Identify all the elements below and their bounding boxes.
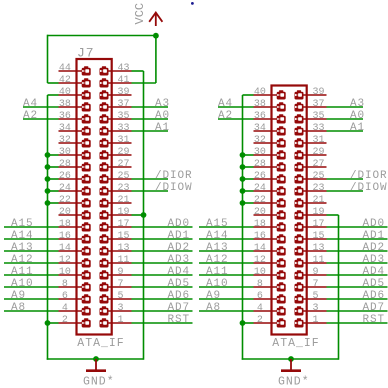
junction pin 19 node	[141, 212, 147, 218]
svg-text:5: 5	[118, 291, 124, 302]
wire net AD3 from right pin 11	[327, 262, 388, 264]
J7 pin 11 (right) stub, pad and number	[100, 255, 132, 268]
J7 pin 35 (right) stub, pad and number	[100, 111, 132, 124]
wire net A2 to right pin 36	[218, 118, 254, 120]
svg-text:3: 3	[313, 303, 319, 314]
J7 pin 16 (left) stub, pad and number	[59, 231, 91, 244]
J7 pin 40 (left) stub, pad and number	[59, 87, 91, 100]
ground symbol GND* (right)	[278, 359, 310, 388]
svg-text:A2: A2	[218, 110, 233, 122]
svg-text:A15: A15	[11, 218, 34, 230]
svg-text:A1: A1	[155, 122, 170, 134]
J8 pin 3 (right) stub, pad and number	[295, 303, 327, 316]
wire net A0 from right connector	[327, 118, 364, 120]
J8 pin 23 (right) stub, pad and number	[295, 183, 327, 196]
wire net AD7 from right pin 3	[327, 310, 388, 312]
ground symbol GND* (left)	[83, 359, 115, 388]
svg-text:/DIOW: /DIOW	[350, 182, 388, 194]
svg-text:43: 43	[118, 63, 130, 74]
J7 pin 8 (left) stub, pad and number	[59, 279, 91, 292]
svg-text:32: 32	[254, 135, 266, 146]
svg-text:38: 38	[59, 99, 71, 110]
svg-text:27: 27	[313, 159, 325, 170]
J7 pin 17 (right) stub, pad and number	[100, 219, 132, 232]
svg-text:29: 29	[118, 147, 130, 158]
J7 pin 32 (left) stub, pad and number	[59, 135, 91, 148]
J8 pin 17 (right) stub, pad and number	[295, 219, 327, 232]
J7 pin 5 (right) stub, pad and number	[100, 291, 132, 304]
junction J7 GND bus at pin 22	[45, 200, 51, 206]
junction J7 GND tap	[93, 356, 99, 362]
svg-text:10: 10	[254, 267, 266, 278]
junction J7 GND bus at pin 26	[45, 176, 51, 182]
svg-text:A9: A9	[11, 290, 26, 302]
svg-text:8: 8	[62, 279, 68, 290]
wire net AD6 from J7 pin 5	[132, 298, 193, 300]
wire net A2 to pin 36	[23, 118, 59, 120]
svg-text:AD6: AD6	[363, 290, 386, 302]
svg-text:5: 5	[313, 291, 319, 302]
J8 pin 8 (left) stub, pad and number	[254, 279, 286, 292]
svg-text:20: 20	[254, 207, 266, 218]
junction VCC node	[153, 33, 159, 39]
svg-text:A8: A8	[206, 302, 221, 314]
J7 pin 43 (right) stub, pad and number	[100, 63, 132, 76]
J7 pin 12 (left) stub, pad and number	[59, 255, 91, 268]
junction right GND bus at pin 22	[240, 200, 246, 206]
svg-text:6: 6	[62, 291, 68, 302]
wire VCC top horizontal	[48, 35, 156, 37]
wire net A15 to right pin 18	[199, 226, 254, 228]
svg-text:11: 11	[118, 255, 130, 266]
svg-text:AD4: AD4	[363, 266, 386, 278]
J7 pin 23 (right) stub, pad and number	[100, 183, 132, 196]
svg-text:14: 14	[59, 243, 71, 254]
junction right GND bus at pin 2	[240, 320, 246, 326]
svg-text:AD1: AD1	[363, 230, 386, 242]
J8 pin 34 (left) stub, pad and number	[254, 123, 286, 136]
wire net A1 from right connector	[327, 130, 364, 132]
svg-text:RST: RST	[168, 314, 191, 326]
wire right bottom GND rail	[242, 358, 339, 360]
svg-text:A10: A10	[11, 278, 34, 290]
J8 pin 30 (left) stub, pad and number	[254, 147, 286, 160]
svg-text:34: 34	[59, 123, 71, 134]
stray blue mark	[191, 2, 194, 5]
J8 pin 39 (right) stub, pad and number	[295, 87, 327, 100]
svg-text:A0: A0	[350, 110, 365, 122]
junction J7 GND bus at pin 28	[45, 164, 51, 170]
svg-text:33: 33	[118, 123, 130, 134]
svg-text:1: 1	[313, 315, 319, 326]
svg-text:AD3: AD3	[168, 254, 191, 266]
wire net /DIOR from right connector	[327, 178, 364, 180]
wire right pin 24 connection	[243, 190, 254, 192]
svg-text:ATA_IF: ATA_IF	[272, 337, 319, 350]
svg-text:23: 23	[118, 183, 130, 194]
J8 pin 14 (left) stub, pad and number	[254, 243, 286, 256]
wire VCC left vertical to pin 42	[47, 35, 49, 83]
wire right connector GND bus vertical	[242, 95, 244, 360]
svg-text:22: 22	[59, 195, 71, 206]
svg-text:RST: RST	[363, 314, 386, 326]
J8 pin 38 (left) stub, pad and number	[254, 99, 286, 112]
wire pin 42 connection	[48, 82, 59, 84]
wire net A8 to right pin 4	[199, 310, 254, 312]
J7 pin 26 (left) stub, pad and number	[59, 171, 91, 184]
svg-text:14: 14	[254, 243, 266, 254]
wire net A15 to pin 18	[4, 226, 59, 228]
wire pin 24 connection	[48, 190, 59, 192]
J7 pin 1 (right) stub, pad and number	[100, 315, 132, 328]
J7 pin 33 (right) stub, pad and number	[100, 123, 132, 136]
svg-text:VCC: VCC	[133, 3, 147, 25]
J8 pin 29 (right) stub, pad and number	[295, 147, 327, 160]
wire net RST from J7 pin 1	[132, 322, 193, 324]
wire pin 26 connection	[48, 178, 59, 180]
svg-text:AD0: AD0	[168, 218, 191, 230]
wire net AD4 from J7 pin 9	[132, 274, 193, 276]
svg-text:2: 2	[257, 315, 263, 326]
J7 pin 34 (left) stub, pad and number	[59, 123, 91, 136]
svg-text:AD7: AD7	[168, 302, 191, 314]
svg-text:6: 6	[257, 291, 263, 302]
svg-text:41: 41	[118, 75, 130, 86]
svg-text:13: 13	[313, 243, 325, 254]
wire J7 bottom GND rail	[47, 358, 144, 360]
svg-text:7: 7	[118, 279, 124, 290]
J7 pin 9 (right) stub, pad and number	[100, 267, 132, 280]
svg-text:/DIOR: /DIOR	[350, 170, 388, 182]
svg-text:31: 31	[118, 135, 130, 146]
wire net AD2 from right pin 13	[327, 250, 388, 252]
svg-text:A11: A11	[206, 266, 229, 278]
svg-text:35: 35	[118, 111, 130, 122]
svg-text:ATA_IF: ATA_IF	[77, 337, 124, 350]
svg-text:GND*: GND*	[278, 376, 310, 388]
wire net A10 to pin 8	[4, 286, 59, 288]
wire J7 GND bus vertical	[47, 95, 49, 360]
svg-text:31: 31	[313, 135, 325, 146]
svg-text:39: 39	[313, 87, 325, 98]
junction right GND bus at pin 24	[240, 188, 246, 194]
wire right pin 30 connection	[243, 154, 254, 156]
J8 pin 37 (right) stub, pad and number	[295, 99, 327, 112]
wire pin 22 connection	[48, 202, 59, 204]
svg-text:19: 19	[313, 207, 325, 218]
svg-text:12: 12	[59, 255, 71, 266]
wire net /DIOR from J7	[132, 178, 169, 180]
wire net AD0 from J7 pin 17	[132, 226, 193, 228]
svg-text:17: 17	[313, 219, 325, 230]
J7 pin 10 (left) stub, pad and number	[59, 267, 91, 280]
svg-text:4: 4	[62, 303, 68, 314]
svg-text:25: 25	[118, 171, 130, 182]
wire net AD2 from J7 pin 13	[132, 250, 193, 252]
svg-text:29: 29	[313, 147, 325, 158]
J8 pin 18 (left) stub, pad and number	[254, 219, 286, 232]
J8 pin 1 (right) stub, pad and number	[295, 315, 327, 328]
svg-text:36: 36	[254, 111, 266, 122]
junction right GND bus at pin 30	[240, 152, 246, 158]
wire right pin 28 connection	[243, 166, 254, 168]
J8 pin 7 (right) stub, pad and number	[295, 279, 327, 292]
svg-text:A12: A12	[11, 254, 34, 266]
wire net A12 to right pin 12	[199, 262, 254, 264]
svg-text:GND*: GND*	[83, 376, 115, 388]
wire pin 19 connection	[132, 214, 144, 216]
J7 pin 21 (right) stub, pad and number	[100, 195, 132, 208]
svg-text:33: 33	[313, 123, 325, 134]
svg-text:AD1: AD1	[168, 230, 191, 242]
svg-text:A13: A13	[11, 242, 34, 254]
J7 pin 22 (left) stub, pad and number	[59, 195, 91, 208]
J7 pin 36 (left) stub, pad and number	[59, 111, 91, 124]
wire right pin 26 connection	[243, 178, 254, 180]
svg-text:A1: A1	[350, 122, 365, 134]
wire net AD6 from right pin 5	[327, 298, 388, 300]
junction right GND bus at pin 28	[240, 164, 246, 170]
svg-text:2: 2	[62, 315, 68, 326]
wire net A11 to right pin 10	[199, 274, 254, 276]
J8 pin 33 (right) stub, pad and number	[295, 123, 327, 136]
J7 pin 38 (left) stub, pad and number	[59, 99, 91, 112]
J7 pin 13 (right) stub, pad and number	[100, 243, 132, 256]
svg-text:AD2: AD2	[363, 242, 386, 254]
svg-text:A14: A14	[11, 230, 34, 242]
svg-text:15: 15	[313, 231, 325, 242]
svg-text:38: 38	[254, 99, 266, 110]
svg-text:25: 25	[313, 171, 325, 182]
svg-text:30: 30	[254, 147, 266, 158]
wire VCC right vertical to pin 41	[155, 36, 157, 84]
wire right pin 40 connection	[243, 94, 254, 96]
svg-text:A2: A2	[23, 110, 38, 122]
svg-text:AD0: AD0	[363, 218, 386, 230]
svg-text:3: 3	[118, 303, 124, 314]
J8 pin 6 (left) stub, pad and number	[254, 291, 286, 304]
wire net A3 from J7	[132, 106, 169, 108]
connector J8 body box	[272, 86, 307, 335]
svg-text:19: 19	[118, 207, 130, 218]
wire right pin 19 to GND rail vertical	[338, 215, 340, 360]
wire net A0 from J7	[132, 118, 169, 120]
svg-text:AD7: AD7	[363, 302, 386, 314]
J8 pin 4 (left) stub, pad and number	[254, 303, 286, 316]
svg-text:28: 28	[59, 159, 71, 170]
J7 pin 29 (right) stub, pad and number	[100, 147, 132, 160]
J8 pin 27 (right) stub, pad and number	[295, 159, 327, 172]
wire net A14 to right pin 16	[199, 238, 254, 240]
svg-text:10: 10	[59, 267, 71, 278]
svg-text:A9: A9	[206, 290, 221, 302]
J7 pin 15 (right) stub, pad and number	[100, 231, 132, 244]
J8 pin 36 (left) stub, pad and number	[254, 111, 286, 124]
svg-text:37: 37	[118, 99, 130, 110]
svg-text:13: 13	[118, 243, 130, 254]
supply symbol VCC	[133, 3, 163, 26]
svg-text:15: 15	[118, 231, 130, 242]
svg-text:AD5: AD5	[363, 278, 386, 290]
J7 pin 3 (right) stub, pad and number	[100, 303, 132, 316]
wire right pin 22 connection	[243, 202, 254, 204]
wire net AD1 from right pin 15	[327, 238, 388, 240]
svg-text:28: 28	[254, 159, 266, 170]
svg-text:9: 9	[313, 267, 319, 278]
svg-text:A3: A3	[155, 98, 170, 110]
J8 pin 19 (right) stub, pad and number	[295, 207, 327, 220]
J7 pin 14 (left) stub, pad and number	[59, 243, 91, 256]
svg-text:24: 24	[59, 183, 71, 194]
J7 pin 39 (right) stub, pad and number	[100, 87, 132, 100]
svg-text:J7: J7	[77, 46, 94, 61]
wire net A12 to pin 12	[4, 262, 59, 264]
J7 pin 37 (right) stub, pad and number	[100, 99, 132, 112]
svg-text:21: 21	[313, 195, 325, 206]
wire pin 28 connection	[48, 166, 59, 168]
svg-text:18: 18	[59, 219, 71, 230]
J7 pin 44 (left) stub, pad and number	[59, 63, 91, 76]
wire pin 41 connection	[132, 82, 156, 84]
svg-text:16: 16	[59, 231, 71, 242]
wire net AD7 from J7 pin 3	[132, 310, 193, 312]
wire net AD5 from J7 pin 7	[132, 286, 193, 288]
svg-text:AD3: AD3	[363, 254, 386, 266]
junction right GND bus at pin 26	[240, 176, 246, 182]
wire net AD4 from right pin 9	[327, 274, 388, 276]
svg-text:A4: A4	[23, 98, 38, 110]
J7 pin 6 (left) stub, pad and number	[59, 291, 91, 304]
svg-text:34: 34	[254, 123, 266, 134]
svg-text:16: 16	[254, 231, 266, 242]
J8 pin 22 (left) stub, pad and number	[254, 195, 286, 208]
J8 pin 35 (right) stub, pad and number	[295, 111, 327, 124]
svg-text:AD4: AD4	[168, 266, 191, 278]
svg-text:40: 40	[59, 87, 71, 98]
J8 pin 16 (left) stub, pad and number	[254, 231, 286, 244]
connector J7 body box	[77, 59, 112, 335]
svg-text:AD5: AD5	[168, 278, 191, 290]
wire net A9 to right pin 6	[199, 298, 254, 300]
wire net A3 from right connector	[327, 106, 364, 108]
junction right GND tap	[288, 356, 294, 362]
J8 pin 28 (left) stub, pad and number	[254, 159, 286, 172]
svg-text:A12: A12	[206, 254, 229, 266]
J7 pin 20 (left) stub, pad and number	[59, 207, 91, 220]
svg-text:24: 24	[254, 183, 266, 194]
J8 pin 10 (left) stub, pad and number	[254, 267, 286, 280]
svg-text:44: 44	[59, 63, 71, 74]
svg-text:8: 8	[257, 279, 263, 290]
J7 pin 42 (left) stub, pad and number	[59, 75, 91, 88]
svg-text:26: 26	[59, 171, 71, 182]
J7 pin 2 (left) stub, pad and number	[59, 315, 91, 328]
wire net A13 to pin 14	[4, 250, 59, 252]
svg-text:11: 11	[313, 255, 325, 266]
J7 pin 19 (right) stub, pad and number	[100, 207, 132, 220]
wire net AD5 from right pin 7	[327, 286, 388, 288]
svg-text:40: 40	[254, 87, 266, 98]
wire pin 43 connection	[132, 70, 144, 72]
J8 pin 25 (right) stub, pad and number	[295, 171, 327, 184]
J8 pin 5 (right) stub, pad and number	[295, 291, 327, 304]
wire net A4 to pin 38	[23, 106, 59, 108]
J7 pin 25 (right) stub, pad and number	[100, 171, 132, 184]
wire net A8 to pin 4	[4, 310, 59, 312]
svg-text:35: 35	[313, 111, 325, 122]
junction J7 GND bus at pin 30	[45, 152, 51, 158]
wire net AD0 from right pin 17	[327, 226, 388, 228]
J7 pin 18 (left) stub, pad and number	[59, 219, 91, 232]
wire net A14 to pin 16	[4, 238, 59, 240]
wire net A13 to right pin 14	[199, 250, 254, 252]
wire right pin 19 connection	[327, 214, 339, 216]
J8 pin 40 (left) stub, pad and number	[254, 87, 286, 100]
wire pin 2 connection	[48, 322, 59, 324]
junction J7 GND bus at pin 24	[45, 188, 51, 194]
wire net /DIOW from J7	[132, 190, 169, 192]
svg-text:9: 9	[118, 267, 124, 278]
svg-text:39: 39	[118, 87, 130, 98]
svg-text:1: 1	[118, 315, 124, 326]
wire net AD1 from J7 pin 15	[132, 238, 193, 240]
svg-text:18: 18	[254, 219, 266, 230]
wire net A11 to pin 10	[4, 274, 59, 276]
svg-text:30: 30	[59, 147, 71, 158]
J7 pin 24 (left) stub, pad and number	[59, 183, 91, 196]
svg-text:17: 17	[118, 219, 130, 230]
wire right pin 2 connection	[243, 322, 254, 324]
svg-text:A4: A4	[218, 98, 233, 110]
J8 pin 21 (right) stub, pad and number	[295, 195, 327, 208]
J8 pin 9 (right) stub, pad and number	[295, 267, 327, 280]
svg-text:A14: A14	[206, 230, 229, 242]
svg-text:A0: A0	[155, 110, 170, 122]
J8 pin 32 (left) stub, pad and number	[254, 135, 286, 148]
svg-text:A10: A10	[206, 278, 229, 290]
svg-text:32: 32	[59, 135, 71, 146]
svg-text:20: 20	[59, 207, 71, 218]
svg-text:A8: A8	[11, 302, 26, 314]
svg-text:22: 22	[254, 195, 266, 206]
wire net /DIOW from right connector	[327, 190, 364, 192]
wire net A10 to right pin 8	[199, 286, 254, 288]
svg-text:36: 36	[59, 111, 71, 122]
svg-text:37: 37	[313, 99, 325, 110]
wire net A9 to pin 6	[4, 298, 59, 300]
J8 pin 24 (left) stub, pad and number	[254, 183, 286, 196]
svg-text:A13: A13	[206, 242, 229, 254]
wire net A4 to right pin 38	[218, 106, 254, 108]
svg-text:23: 23	[313, 183, 325, 194]
svg-text:/DIOW: /DIOW	[155, 182, 193, 194]
svg-text:AD2: AD2	[168, 242, 191, 254]
svg-text:A3: A3	[350, 98, 365, 110]
junction J7 GND bus at pin 2	[45, 320, 51, 326]
J7 pin 28 (left) stub, pad and number	[59, 159, 91, 172]
J7 pin 7 (right) stub, pad and number	[100, 279, 132, 292]
J7 pin 27 (right) stub, pad and number	[100, 159, 132, 172]
wire pin 43 to GND rail vertical	[143, 71, 145, 360]
svg-text:21: 21	[118, 195, 130, 206]
J7 pin 31 (right) stub, pad and number	[100, 135, 132, 148]
wire net AD3 from J7 pin 11	[132, 262, 193, 264]
wire net A1 from J7	[132, 130, 169, 132]
svg-text:4: 4	[257, 303, 263, 314]
svg-text:12: 12	[254, 255, 266, 266]
svg-text:/DIOR: /DIOR	[155, 170, 193, 182]
J8 pin 2 (left) stub, pad and number	[254, 315, 286, 328]
